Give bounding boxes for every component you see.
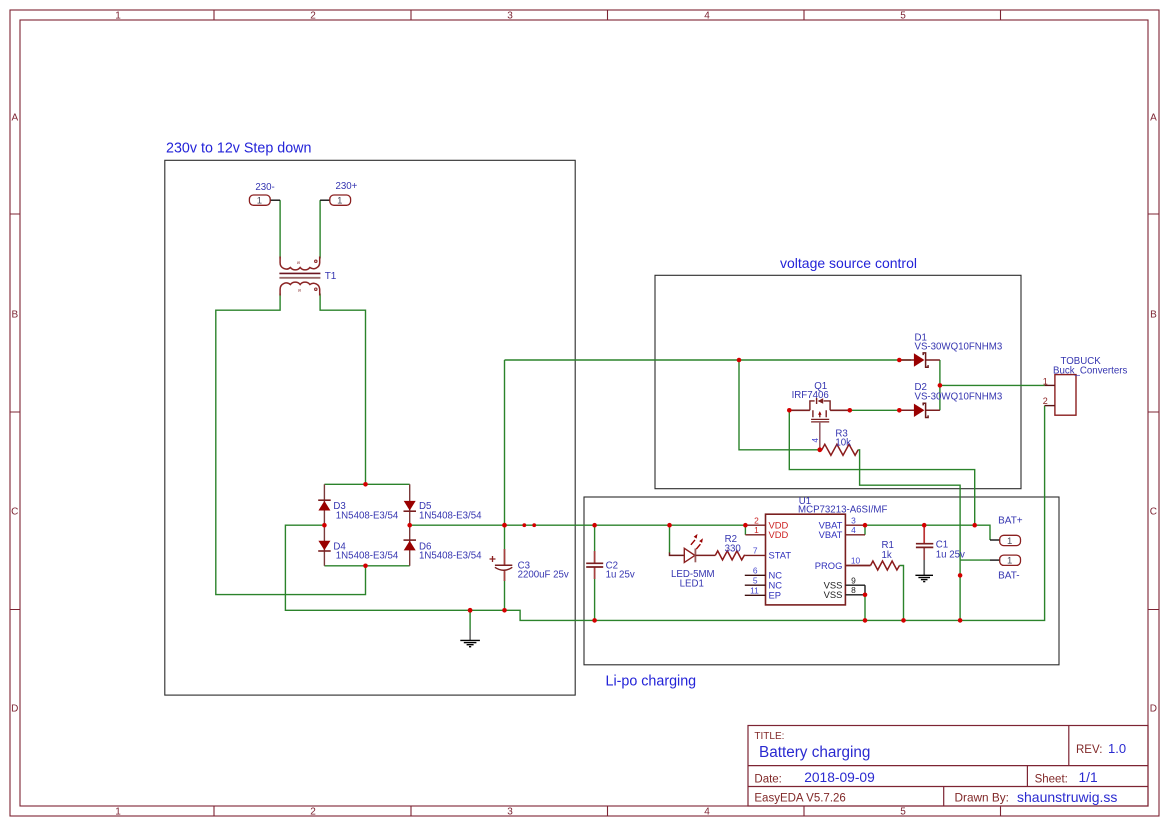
svg-text:B: B <box>11 310 18 321</box>
svg-text:PROG: PROG <box>815 560 843 571</box>
svg-text:BAT-: BAT- <box>998 571 1019 582</box>
U1 pin 4 stub <box>845 534 865 536</box>
LED LED1 <box>670 534 716 563</box>
svg-text:A: A <box>11 113 18 124</box>
TOBUCK pin 1 stub <box>1045 384 1055 386</box>
U1 pin 3 stub <box>845 524 865 526</box>
svg-text:10k: 10k <box>835 438 851 449</box>
diode D6 <box>404 540 417 550</box>
wire BAT- connector branch <box>960 559 990 561</box>
svg-text:2200uF 25v: 2200uF 25v <box>518 570 569 581</box>
svg-text:s: s <box>296 261 302 264</box>
connector 230+ body <box>330 195 351 207</box>
svg-text:10: 10 <box>851 556 861 566</box>
svg-text:VSS: VSS <box>824 589 843 600</box>
svg-text:1N5408-E3/54: 1N5408-E3/54 <box>336 551 399 562</box>
wire bridge bottom edge <box>324 565 409 567</box>
svg-text:1/1: 1/1 <box>1079 770 1098 785</box>
svg-text:3: 3 <box>507 807 513 818</box>
diode D2 <box>899 403 940 417</box>
svg-text:1: 1 <box>1043 376 1048 386</box>
svg-text:3: 3 <box>507 11 513 22</box>
wire 230+ connector to T1 primary right <box>319 200 321 258</box>
wire U1 VSS down to ground rail <box>864 595 866 621</box>
diode D5 <box>404 501 417 511</box>
svg-text:1: 1 <box>115 807 121 818</box>
U1 VSS pins tie <box>864 585 866 595</box>
svg-text:5: 5 <box>900 807 906 818</box>
svg-text:BAT+: BAT+ <box>998 515 1023 526</box>
wire R3 right to ground rail past BAT- <box>858 450 960 621</box>
resistor R3 <box>820 444 858 455</box>
svg-text:LED1: LED1 <box>680 578 704 589</box>
wire ground symbol stub <box>469 610 471 629</box>
Q1 gate lead down <box>819 422 821 450</box>
pin stub BAT+ connector <box>990 539 1000 541</box>
svg-text:Li-po charging: Li-po charging <box>606 674 697 690</box>
pin stub 230+ connector <box>320 199 330 201</box>
op-amp U1 chip body MCP73213 <box>766 514 846 605</box>
svg-text:Sheet:: Sheet: <box>1035 773 1068 785</box>
svg-text:2: 2 <box>1043 396 1048 406</box>
svg-text:2: 2 <box>754 515 759 525</box>
svg-text:TITLE:: TITLE: <box>754 731 784 742</box>
svg-text:T1: T1 <box>325 271 337 282</box>
wire Q1 right to D2 anode <box>850 409 911 411</box>
svg-text:4: 4 <box>704 11 710 22</box>
resistor R1 left stub <box>845 565 870 567</box>
ground symbol (main rail) <box>460 630 480 647</box>
svg-text:230+: 230+ <box>336 181 358 192</box>
connector 230- body <box>249 195 270 207</box>
svg-text:voltage source control: voltage source control <box>780 255 917 271</box>
svg-text:IRF7406: IRF7406 <box>792 390 829 401</box>
svg-text:MCP73213-A6SI/MF: MCP73213-A6SI/MF <box>798 504 887 515</box>
wire C1 top lead <box>923 525 925 543</box>
svg-text:4: 4 <box>704 807 710 818</box>
svg-text:Drawn By:: Drawn By: <box>955 791 1009 805</box>
wire ground rail: bridge mid-left to TOBUCK pin2 <box>285 406 1044 621</box>
section box: 230v to 12v Step down <box>165 160 575 695</box>
svg-text:1: 1 <box>115 11 121 22</box>
diode D4 <box>318 541 331 551</box>
svg-text:6: 6 <box>753 566 758 576</box>
section box: voltage source control <box>655 275 1021 488</box>
svg-text:C: C <box>11 507 18 518</box>
wire D1 cathode to TOBUCK pin1 and D2 cathode <box>940 360 1045 410</box>
wire C3 top lead <box>504 525 506 564</box>
wire bridge top edge <box>324 483 409 485</box>
svg-text:1u 25v: 1u 25v <box>936 550 965 561</box>
wire gate sense to BAT+ node <box>789 410 974 525</box>
wire D1 feed line <box>505 359 912 361</box>
svg-text:A: A <box>1150 113 1157 124</box>
U1 pin 7 stub <box>745 554 765 556</box>
wire Q1 gate branch from D1 feed <box>739 360 820 450</box>
svg-text:4: 4 <box>851 525 856 535</box>
svg-text:s: s <box>297 289 303 292</box>
svg-text:VS-30WQ10FNHM3: VS-30WQ10FNHM3 <box>915 391 1003 402</box>
pin stub BAT- connector <box>990 559 1000 561</box>
wire LED1 anode branch <box>669 525 671 553</box>
svg-text:2: 2 <box>310 807 316 818</box>
TOBUCK pin 2 stub <box>1045 405 1055 407</box>
capacitor C1 <box>916 527 933 575</box>
svg-text:D: D <box>1150 704 1157 715</box>
svg-text:5: 5 <box>753 575 758 585</box>
svg-text:1N5408-E3/54: 1N5408-E3/54 <box>419 510 482 521</box>
svg-text:2: 2 <box>310 11 316 22</box>
svg-text:Buck_Converters: Buck_Converters <box>1053 365 1127 376</box>
connector TOBUCK body <box>1055 375 1076 416</box>
svg-text:Date:: Date: <box>754 773 782 785</box>
title block frame <box>748 726 1148 807</box>
ground symbol (C1) <box>915 575 933 581</box>
svg-text:1N5408-E3/54: 1N5408-E3/54 <box>419 551 482 562</box>
svg-text:Battery charging: Battery charging <box>759 744 870 761</box>
resistor R1 <box>871 561 900 570</box>
wire C2 bottom lead <box>594 568 596 621</box>
wire 230- connector to T1 primary left <box>279 200 281 258</box>
connector BAT+ body <box>1000 535 1021 547</box>
svg-text:shaunstruwig.ss: shaunstruwig.ss <box>1017 789 1117 805</box>
transistor Q1 IRF7406 <box>789 398 850 422</box>
svg-text:11: 11 <box>750 586 759 596</box>
section box: Li-po charging <box>584 497 1059 665</box>
bridge right edge <box>409 484 411 566</box>
wire right rail U1 pin3 to BAT+ <box>865 525 990 540</box>
svg-text:1.0: 1.0 <box>1108 741 1126 756</box>
T1 core lines <box>279 272 320 274</box>
svg-text:5: 5 <box>900 11 906 22</box>
U1 pin 6 stub <box>745 574 766 576</box>
svg-text:230-: 230- <box>255 182 274 193</box>
wire C3 node up to D1 feed <box>504 360 506 525</box>
svg-text:1k: 1k <box>882 550 892 561</box>
svg-text:1N5408-E3/54: 1N5408-E3/54 <box>336 510 399 521</box>
capacitor C3 polarized <box>490 549 513 581</box>
connector BAT- body <box>1000 555 1021 567</box>
svg-text:1u 25v: 1u 25v <box>606 570 635 581</box>
junction dots <box>322 358 977 623</box>
U1 pin 8 stub <box>845 594 865 596</box>
bridge left edge <box>323 484 325 566</box>
svg-text:1: 1 <box>1007 556 1012 567</box>
U1 pin 5 stub <box>745 584 766 586</box>
svg-text:1: 1 <box>754 525 759 535</box>
svg-text:230v to 12v Step down: 230v to 12v Step down <box>166 141 312 157</box>
wire T1 secondary left to bridge bottom node <box>216 294 366 595</box>
U1 pin 2 stub <box>745 524 765 526</box>
pin stub 230- connector <box>270 199 280 201</box>
svg-text:1: 1 <box>337 196 342 207</box>
svg-text:EasyEDA V5.7.26: EasyEDA V5.7.26 <box>754 793 845 805</box>
svg-text:REV:: REV: <box>1076 744 1102 756</box>
svg-text:EP: EP <box>769 590 782 601</box>
svg-text:VBAT: VBAT <box>819 529 843 540</box>
svg-text:1: 1 <box>1007 536 1012 547</box>
svg-text:2018-09-09: 2018-09-09 <box>804 770 875 785</box>
U1 pin 1 stub <box>745 534 765 536</box>
svg-text:VS-30WQ10FNHM3: VS-30WQ10FNHM3 <box>915 342 1003 353</box>
wire C3 bottom lead to ground rail <box>504 572 506 611</box>
svg-text:4: 4 <box>811 438 820 443</box>
svg-text:3: 3 <box>851 515 856 525</box>
wire C2 top lead <box>594 525 596 562</box>
svg-text:C: C <box>1150 507 1157 518</box>
transformer T1 <box>280 257 320 296</box>
svg-text:VDD: VDD <box>769 529 789 540</box>
resistor R2 <box>715 551 745 560</box>
diode D3 <box>318 500 331 510</box>
U1 pin 10 stub <box>845 565 870 567</box>
wire main positive rail bridge to U1 pin2 <box>410 524 746 526</box>
wire T1 secondary right to bridge top node <box>320 294 365 485</box>
svg-text:1: 1 <box>257 196 262 207</box>
capacitor C2 <box>586 551 603 579</box>
svg-text:7: 7 <box>753 546 758 556</box>
wire U1 pin2-pin1 tie <box>744 525 746 535</box>
svg-text:8: 8 <box>851 585 856 595</box>
svg-text:STAT: STAT <box>769 550 792 561</box>
svg-text:B: B <box>1150 310 1157 321</box>
svg-text:9: 9 <box>851 575 856 585</box>
U1 pin 9 stub <box>845 584 865 586</box>
svg-text:330: 330 <box>725 544 742 555</box>
diode D1 <box>899 353 940 367</box>
wire R1 right to ground rail <box>900 566 904 621</box>
svg-text:D: D <box>11 704 18 715</box>
U1 pin 11 stub <box>745 594 766 596</box>
